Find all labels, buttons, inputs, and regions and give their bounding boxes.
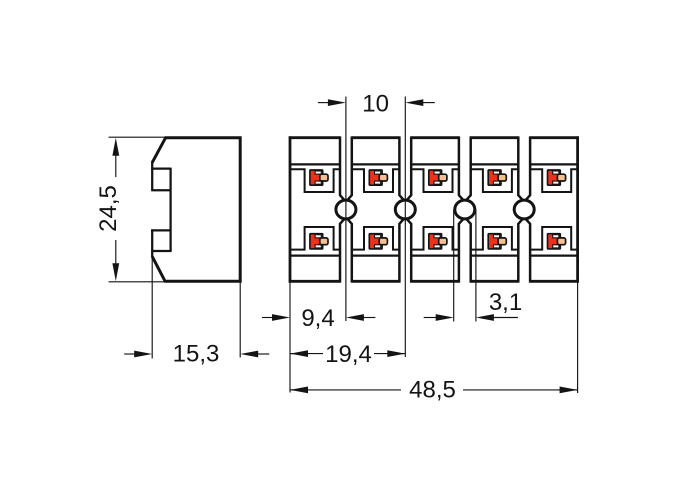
side view mounting notch upper: top edge [151,167,170,169]
dimension 10: left arrow [328,99,346,106]
dimension 9,4: left arrow [272,314,290,321]
segment 1 upper horizontal rib [290,163,340,165]
dimension 9,4: right arrow [346,314,364,321]
svg-text:19,4: 19,4 [325,341,372,368]
dimension 19,4: right arrow [387,350,405,357]
segment 3 top edge [411,136,459,139]
dimension 15,3: right extension line [239,282,241,357]
segment 5 upper horizontal rib [530,163,578,165]
segment 4 bottom edge [471,280,519,283]
dimension 24,5: bottom extension line [109,281,166,283]
segment 1 bottom edge [289,280,340,283]
segment 2 upper push-button lever (red) [369,170,382,185]
dimension 3,1: right extension line [475,210,477,322]
segment 4 upper cavity [471,169,519,192]
segment 1 top edge [289,136,340,139]
segment 1 lower horizontal rib [290,255,340,257]
segment 2 upper horizontal rib [352,163,400,165]
svg-text:24,5: 24,5 [95,185,122,232]
gap 4 channel left wall [518,136,523,202]
gap 2 mounting hole circle [395,200,415,219]
gap 3 mounting hole circle [455,200,475,219]
gap 1 mounting hole circle [336,200,356,219]
dimension 3,1: right arrow [476,314,494,321]
segment 4 lower push-button lever (red) [488,234,501,249]
side view mounting notch upper: bottom edge [151,189,170,191]
dimension 24,5: top extension line [109,136,167,138]
front view outer left edge [289,136,292,282]
gap 1 channel right wall [346,136,351,202]
dimension 48,5: left arrow [290,387,308,394]
side view mounting notch lower: bottom edge [151,250,170,252]
side view left wall upper segment [151,162,153,191]
segment 2 lower cavity [352,227,400,250]
segment 5 bottom edge [530,280,579,283]
side view body outline [152,138,240,282]
segment 4 upper push-button lever (red) [488,170,501,185]
segment 3 upper horizontal rib [411,163,459,165]
segment 2 top edge [352,136,400,139]
dimension 15,3: left extension line [151,252,153,359]
segment 4 lower cavity [471,227,519,250]
svg-text:48,5: 48,5 [409,377,456,404]
svg-text:10: 10 [362,91,389,118]
dimension 24,5: down arrow [112,263,119,281]
dimension 15,3: left arrow [134,351,152,358]
segment 2 bottom edge [352,280,400,283]
dimension 15,3: right arrow [240,351,258,358]
gap 2 channel right wall [406,136,411,202]
svg-text:15,3: 15,3 [173,341,220,368]
front view outer right edge [576,136,579,282]
svg-text:9,4: 9,4 [301,305,334,332]
segment 1 upper push-button lever (red) [310,170,323,185]
dimension 19,4: dimension line [291,353,323,355]
segment 4 top edge [471,136,519,139]
segment 3 upper push-button lever (red) [429,170,442,185]
dimension 10: extension line at gap 1 center [345,97,347,322]
gap 4 mounting hole circle [514,200,534,219]
gap 4 channel right wall [525,136,530,202]
side view inner wall between notches [169,168,171,252]
segment 5 lower cavity [530,227,578,250]
svg-text:3,1: 3,1 [489,289,522,316]
segment 5 upper push-button lever (red) [548,170,561,185]
dimension 48,5: dimension line [291,389,401,391]
dimension 24,5: up arrow [112,138,119,156]
gap 1 channel left wall [340,136,345,202]
segment 5 lower horizontal rib [530,255,578,257]
segment 1 upper cavity [290,169,340,192]
extension line at front view left edge [289,282,291,392]
segment 1 lower push-button lever (red) [310,234,323,249]
extension line at front view right edge [577,282,579,393]
segment 4 lower horizontal rib [471,255,519,257]
side view left wall lower segment [151,229,153,257]
side view mounting notch lower: top edge [151,229,170,231]
segment 2 upper cavity [352,169,400,192]
segment 3 bottom edge [411,280,459,283]
segment 3 upper cavity [411,169,459,192]
segment 3 lower cavity [411,227,459,250]
dimension 10: right arrow [405,99,423,106]
dimension 10: extension line at gap 2 center [404,97,406,358]
segment 3 lower push-button lever (red) [429,234,442,249]
gap 3 channel left wall [459,136,464,202]
segment 5 upper cavity [530,169,578,192]
dimension 3,1: left arrow [436,314,454,321]
dimension 19,4: left arrow [290,350,308,357]
segment 5 top edge [530,136,579,139]
segment 2 lower push-button lever (red) [369,234,382,249]
segment 1 lower cavity [290,227,340,250]
dimension 24,5: dimension line [115,152,117,177]
dimension 48,5: right arrow [560,387,578,394]
dimension 3,1: left extension line [453,210,455,322]
segment 5 lower push-button lever (red) [548,234,561,249]
segment 3 lower horizontal rib [411,255,459,257]
segment 2 lower horizontal rib [352,255,400,257]
gap 3 channel right wall [465,136,470,202]
gap 2 channel left wall [399,136,404,202]
segment 4 upper horizontal rib [471,163,519,165]
